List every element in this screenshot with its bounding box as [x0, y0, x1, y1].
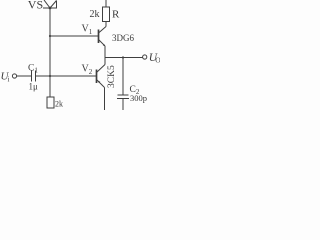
- transistor V2 (PNP 3CK5): [97, 65, 106, 88]
- svg-text:VS: VS: [28, 0, 43, 11]
- wire output horizontal: [105, 57, 143, 59]
- svg-text:i: i: [8, 76, 10, 84]
- wire input to C1: [17, 75, 32, 77]
- capacitor C2: [117, 95, 129, 99]
- wire input line to V2 base: [36, 75, 97, 77]
- node C2 junction dot: [122, 56, 124, 58]
- node base junction dot: [49, 35, 51, 37]
- transistor V1 (NPN 3DG6): [99, 22, 107, 47]
- svg-text:V2: V2: [82, 64, 93, 77]
- terminal input circle: [12, 74, 16, 78]
- resistor 2k bottom box: [47, 97, 54, 108]
- node input junction dot: [49, 75, 51, 77]
- svg-text:R: R: [112, 9, 120, 21]
- svg-text:V1: V1: [82, 24, 93, 37]
- svg-text:C1: C1: [28, 64, 38, 75]
- wire V2 emitter to bottom edge: [104, 88, 106, 111]
- svg-text:3CK5: 3CK5: [107, 65, 117, 88]
- svg-text:1μ: 1μ: [29, 82, 39, 92]
- svg-text:2k: 2k: [55, 100, 63, 109]
- terminal output circle: [143, 55, 147, 59]
- diode D1 (supply arrow, clipped at top): [43, 0, 57, 9]
- wire R top: [105, 0, 107, 7]
- wire V1 base: [50, 35, 98, 37]
- svg-text:2k: 2k: [90, 9, 100, 20]
- wire V1 emitter down to output node: [104, 46, 106, 65]
- wire VS rail vertical: [49, 8, 51, 97]
- wire C2 bottom to edge: [122, 99, 124, 111]
- capacitor C1: [32, 71, 36, 82]
- svg-text:3DG6: 3DG6: [112, 33, 134, 43]
- wire C2 branch down: [122, 58, 124, 96]
- svg-text:O: O: [155, 55, 160, 64]
- resistor R box: [103, 7, 110, 22]
- svg-text:300p: 300p: [130, 93, 147, 103]
